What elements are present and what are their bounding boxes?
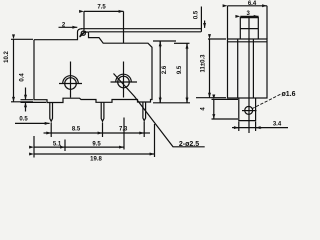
phi1.6 leader xyxy=(252,94,281,109)
lever arm bottom line xyxy=(89,31,202,33)
dim 4 line xyxy=(213,99,215,119)
dim 5.1 / 9.5 line xyxy=(34,146,65,148)
dim 19.8 line xyxy=(34,153,155,155)
dim 6.4 line xyxy=(228,5,268,7)
dim 10.2 line xyxy=(13,39,15,102)
dim 2.6 top extension line xyxy=(153,40,176,42)
dim 0.5 lever leader xyxy=(204,21,206,28)
dim 6.4 extension lines xyxy=(228,6,268,39)
dim 3 line xyxy=(240,15,258,17)
svg-text:2.6: 2.6 xyxy=(162,65,168,74)
svg-text:7.3: 7.3 xyxy=(119,127,128,133)
terminal pin 2 xyxy=(101,102,104,121)
button outline xyxy=(240,18,258,39)
dim 7.5 line xyxy=(84,10,124,12)
shared bottom extension line xyxy=(153,102,190,104)
dim 10.2 extension lines xyxy=(11,39,33,102)
svg-text:3.4: 3.4 xyxy=(273,122,282,128)
svg-text:19.8: 19.8 xyxy=(90,157,102,163)
right view body xyxy=(228,39,268,98)
svg-text:0.5: 0.5 xyxy=(194,10,200,19)
left view: switch body outline xyxy=(34,29,82,40)
phi1.6 hole xyxy=(245,106,253,114)
lever tip end tick xyxy=(200,7,202,32)
svg-text:11±0.3: 11±0.3 xyxy=(201,54,207,73)
mounting hole 2 circle xyxy=(118,76,130,88)
terminal pin 1 xyxy=(50,103,53,122)
svg-text:9.5: 9.5 xyxy=(177,65,183,74)
svg-text:0.4: 0.4 xyxy=(20,73,26,82)
tab extension below xyxy=(239,122,256,132)
svg-text:7.5: 7.5 xyxy=(97,5,106,11)
lever arm top line xyxy=(81,28,201,30)
dim 3.4 line xyxy=(236,127,288,129)
button mid line xyxy=(240,28,258,30)
dim 2 leader line xyxy=(59,26,78,28)
svg-text:9.5: 9.5 xyxy=(92,142,101,148)
pin extension ticks xyxy=(51,122,144,138)
dim 8.5 / 7.3 line xyxy=(44,132,52,134)
svg-text:5.1: 5.1 xyxy=(53,142,62,148)
dim 0.4 arrows xyxy=(25,88,27,100)
hole crosshair horizontal xyxy=(242,110,257,112)
dim 7.5 extension lines xyxy=(84,11,124,43)
dim 4 extension lines xyxy=(212,99,239,119)
dim 3.4 arrows xyxy=(232,127,239,129)
right view inner vertical lines xyxy=(238,17,254,133)
ticks for 5.1/9.5 xyxy=(65,118,124,152)
extension body top right xyxy=(174,42,190,44)
svg-text:0.5: 0.5 xyxy=(19,116,28,122)
mounting hole 1 circle xyxy=(65,78,77,90)
19.8 extension lines xyxy=(34,124,155,158)
dim 11 line xyxy=(209,39,211,98)
bottom pin dim 0.5 leader xyxy=(15,122,50,124)
dim 9.5 vertical line xyxy=(186,43,188,103)
bottom tab xyxy=(239,98,256,121)
hinge curl detail xyxy=(80,31,88,37)
svg-text:4: 4 xyxy=(201,107,207,111)
dim 0.4 extension lines xyxy=(21,100,47,103)
dim 2.6 line xyxy=(159,41,161,103)
svg-text:10.2: 10.2 xyxy=(4,51,10,63)
terminal pin 3 xyxy=(143,102,146,121)
hole 2 centerlines xyxy=(111,62,138,98)
mounting hole 1 boss arc xyxy=(63,76,79,84)
mounting hole 2 boss arc xyxy=(116,74,132,82)
hole 1 centerlines xyxy=(59,62,82,98)
svg-text:6.4: 6.4 xyxy=(248,1,257,7)
svg-text:8.5: 8.5 xyxy=(72,126,81,132)
svg-text:ø1.6: ø1.6 xyxy=(281,91,295,98)
dim 11 extension lines xyxy=(196,39,226,98)
svg-text:2-ø2.5: 2-ø2.5 xyxy=(179,141,199,148)
2-phi2.5 leader xyxy=(114,74,205,147)
right view body top second line xyxy=(228,41,268,43)
